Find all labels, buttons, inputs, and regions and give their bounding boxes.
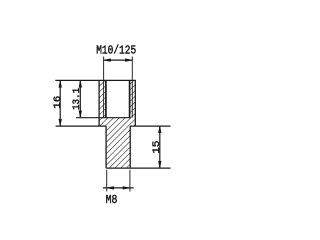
dimension 13.1 (bore depth) bbox=[71, 80, 83, 117]
thread major dia thin line right / M10 extension line bbox=[131, 57, 133, 118]
svg-text:13.1: 13.1 bbox=[71, 88, 83, 110]
top face (with left extension line) bbox=[55, 79, 136, 81]
svg-text:15: 15 bbox=[151, 141, 163, 154]
top arrow bbox=[59, 80, 62, 87]
left outer edge bbox=[98, 80, 100, 126]
bore right wall (thick, minor dia) bbox=[129, 80, 131, 117]
threaded bore M10 bbox=[76, 57, 132, 118]
stem right edge bbox=[129, 126, 131, 168]
dimension M10/125 (top) bbox=[96, 44, 136, 62]
left arrow bbox=[104, 59, 111, 62]
dim line bbox=[159, 126, 161, 168]
dimension M8 (bottom) bbox=[103, 170, 134, 207]
left extension line bbox=[106, 170, 108, 192]
bottom arrow bbox=[79, 111, 82, 118]
bore bottom (with left extension to 13.1 dim) bbox=[76, 117, 130, 119]
thread major dia thin line left / M10 extension line bbox=[103, 57, 105, 118]
step / flange bottom left (with extension to 16 dim) bbox=[56, 125, 107, 127]
body outline: flange (top section) bbox=[55, 80, 170, 126]
dim line bbox=[79, 80, 81, 117]
stem bottom face (with right extension to 15 dim) bbox=[106, 167, 170, 169]
dimension 16 (left outer) bbox=[52, 80, 64, 126]
top arrow bbox=[79, 80, 82, 87]
bottom arrow bbox=[59, 119, 62, 126]
right extension line bbox=[129, 170, 131, 192]
svg-text:16: 16 bbox=[52, 96, 64, 109]
section hatching (flange minus bore, plus stem) bbox=[99, 80, 135, 168]
bore left wall (thick, minor dia) bbox=[105, 80, 107, 117]
right outer edge bbox=[134, 80, 136, 126]
dimension 15 (stem length, right) bbox=[151, 126, 163, 168]
dim line bbox=[104, 59, 133, 61]
stem left edge bbox=[105, 126, 107, 168]
top arrow bbox=[158, 126, 161, 133]
left arrow bbox=[107, 187, 114, 190]
svg-text:M8: M8 bbox=[106, 193, 118, 207]
stem (M8 shank) bbox=[106, 126, 170, 168]
dim line bbox=[103, 187, 134, 189]
dim line bbox=[59, 80, 61, 126]
svg-text:M10/125: M10/125 bbox=[96, 44, 136, 58]
bottom arrow bbox=[158, 161, 161, 168]
step / flange bottom right (with extension to 15 dim) bbox=[130, 125, 170, 127]
right arrow bbox=[123, 187, 130, 190]
right arrow bbox=[125, 59, 132, 62]
